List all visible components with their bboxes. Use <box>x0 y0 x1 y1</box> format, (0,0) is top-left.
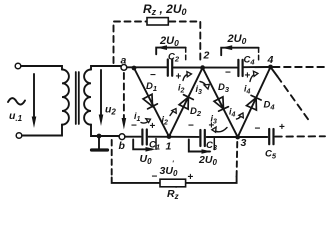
svg-text:3: 3 <box>241 137 247 149</box>
svg-text:−: − <box>150 70 156 81</box>
svg-text:+: + <box>188 172 194 183</box>
svg-text:+: + <box>245 71 251 82</box>
svg-text:4: 4 <box>267 54 274 66</box>
svg-text:+: + <box>209 121 215 132</box>
svg-text:−: − <box>131 121 137 132</box>
svg-text:b: b <box>119 140 126 152</box>
svg-text:a: a <box>121 55 127 67</box>
svg-text:+: + <box>176 72 182 83</box>
svg-text:+: + <box>150 121 156 132</box>
svg-text:−: − <box>225 68 231 79</box>
svg-text:−: − <box>152 172 158 183</box>
svg-text:−: − <box>188 121 194 132</box>
svg-text:2: 2 <box>203 50 210 62</box>
svg-text:Rz , 2U0: Rz , 2U0 <box>143 2 187 17</box>
svg-text:+: + <box>279 122 285 133</box>
svg-text:1: 1 <box>166 141 172 153</box>
svg-text:−: − <box>255 124 261 135</box>
